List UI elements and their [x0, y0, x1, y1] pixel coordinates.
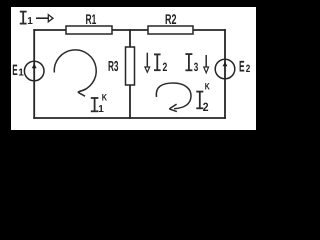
svg-text:R1: R1 — [86, 11, 97, 27]
svg-text:3: 3 — [194, 60, 199, 74]
svg-text:1: 1 — [27, 16, 33, 27]
mesh loop arrow 1 (left) — [54, 50, 96, 92]
label I1 (top left) — [20, 12, 27, 24]
svg-text:2: 2 — [163, 60, 168, 74]
wire middle upper — [129, 30, 131, 47]
resistor R3 — [126, 47, 135, 85]
svg-text:K: K — [102, 92, 107, 103]
wire left — [33, 30, 35, 118]
resistor R1 — [66, 26, 112, 34]
svg-text:K: K — [205, 82, 210, 93]
label I1k (left mesh) — [91, 98, 99, 111]
mesh loop arrow 2 (right) — [156, 83, 191, 109]
svg-text:R2: R2 — [165, 11, 177, 27]
source E2 — [215, 59, 235, 79]
label I2k (right mesh) — [196, 92, 203, 109]
label I2 (middle branch) — [154, 54, 161, 70]
svg-text:1: 1 — [98, 104, 104, 115]
svg-text:E: E — [239, 59, 245, 76]
source E1 — [24, 61, 44, 81]
white canvas — [11, 7, 256, 130]
svg-text:1: 1 — [18, 68, 24, 79]
wire bottom — [34, 117, 225, 119]
svg-text:2: 2 — [203, 100, 209, 114]
label arrow down I3 — [205, 55, 207, 67]
svg-text:R3: R3 — [108, 59, 119, 75]
svg-text:E: E — [12, 62, 17, 79]
resistor R2 — [148, 26, 193, 34]
wire middle lower — [129, 85, 131, 118]
svg-text:2: 2 — [246, 63, 251, 75]
wire top-right segment — [193, 29, 225, 31]
arrow I1 direction (top left) — [36, 17, 48, 19]
wire top-middle segment — [112, 29, 148, 31]
wire right — [224, 30, 226, 118]
wire top-left segment — [34, 29, 66, 31]
label arrow down I2 (middle branch) — [146, 53, 148, 67]
label I3 (right of middle) — [185, 54, 192, 70]
